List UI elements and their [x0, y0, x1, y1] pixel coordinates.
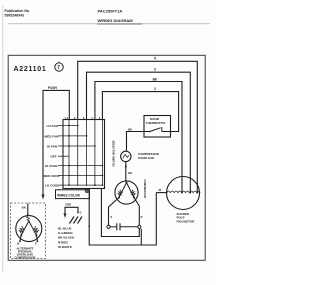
svg-text:BK-BLACK: BK-BLACK — [58, 236, 75, 240]
wire BK overload to compressor — [125, 162, 133, 182]
alternate compressor label — [15, 246, 37, 259]
svg-text:L1: L1 — [65, 116, 69, 120]
wire 3 (switch to fan motor med) — [87, 68, 191, 193]
svg-text:COMPRESSOR: COMPRESSOR — [15, 255, 37, 259]
svg-text:Publication No.: Publication No. — [5, 9, 31, 13]
compressor overload label — [138, 152, 160, 160]
row HI FAN — [47, 145, 96, 149]
push wire with arrow — [42, 86, 70, 199]
wire W1 common run line — [88, 189, 156, 245]
svg-text:BK: BK — [153, 77, 158, 81]
row LO COOL — [45, 184, 103, 188]
svg-text:G: G — [80, 211, 82, 214]
svg-text:3: 3 — [154, 68, 156, 72]
svg-text:2: 2 — [154, 87, 156, 91]
svg-text:THERMOSTAT: THERMOSTAT — [146, 121, 166, 125]
svg-text:OVERLOAD: OVERLOAD — [138, 156, 154, 160]
svg-text:LO COOL: LO COOL — [45, 184, 59, 188]
svg-text:W: W — [17, 243, 20, 246]
row MED COOL — [43, 174, 103, 178]
diagram border — [8, 55, 205, 260]
svg-text:SELECTOR SWITCH: SELECTOR SWITCH — [112, 141, 116, 167]
svg-text:CRD: CRD — [65, 203, 71, 207]
svg-text:WIRING DIAGRAM: WIRING DIAGRAM — [98, 18, 134, 23]
svg-text:LO FAN: LO FAN — [47, 124, 59, 128]
svg-text:MED COOL: MED COOL — [43, 174, 60, 178]
svg-text:A221101: A221101 — [14, 66, 47, 73]
alternate compressor dashed box — [11, 203, 46, 259]
svg-text:W-WHITE: W-WHITE — [58, 245, 72, 249]
selector switch box — [63, 120, 105, 189]
circled terminal marker — [85, 189, 89, 193]
shaded pole fan motor — [166, 177, 201, 210]
svg-text:MED FAN: MED FAN — [45, 134, 60, 138]
alternate compressor — [16, 214, 42, 245]
compressor — [115, 181, 138, 204]
faint page scan edge left — [2, 6, 4, 272]
svg-text:HI FAN: HI FAN — [47, 145, 58, 149]
wire 5 (switch to fan motor lo) — [78, 57, 198, 193]
header rule — [8, 23, 210, 25]
wire compressor S to capacitor — [109, 198, 120, 226]
svg-text:HI COOL: HI COOL — [45, 164, 58, 168]
svg-text:BL-BLUE: BL-BLUE — [58, 227, 72, 231]
alternate compressor BK lead — [22, 204, 28, 215]
svg-text:BK: BK — [128, 128, 132, 132]
svg-text:W: W — [159, 188, 162, 192]
wires color label box — [56, 190, 90, 199]
run capacitor — [107, 223, 141, 230]
row MED FAN — [45, 134, 88, 138]
svg-text:R-RED: R-RED — [58, 240, 69, 244]
header publication number — [5, 9, 31, 17]
row OFF — [51, 155, 70, 159]
wire run line to fan motor — [156, 188, 166, 193]
selector switch column buses — [69, 120, 102, 187]
svg-text:S: S — [111, 216, 113, 219]
svg-text:BK: BK — [22, 206, 26, 210]
svg-text:COMPRESSOR: COMPRESSOR — [143, 179, 147, 198]
svg-text:5: 5 — [154, 57, 156, 61]
wire compressor R to capacitor — [134, 198, 143, 226]
svg-text:7: 7 — [57, 65, 60, 71]
wire color legend — [58, 227, 75, 249]
svg-text:PUSH: PUSH — [48, 86, 58, 90]
svg-text:BK: BK — [128, 171, 132, 175]
row HI COOL — [45, 164, 103, 168]
svg-text:FAN MOTOR: FAN MOTOR — [177, 219, 196, 223]
selector switch terminal labels — [65, 116, 101, 120]
svg-text:WIRES COLOR: WIRES COLOR — [57, 193, 81, 197]
room thermostat box — [144, 116, 171, 138]
chassis ground — [70, 217, 83, 224]
power cord CRD — [64, 203, 82, 218]
svg-text:OFF: OFF — [51, 155, 57, 159]
circled revision symbol — [55, 62, 63, 72]
compressor overload — [121, 151, 131, 161]
svg-text:PAC250FT1A: PAC250FT1A — [98, 8, 123, 13]
svg-text:5995246943: 5995246943 — [5, 14, 25, 18]
wire W2 to capacitor — [101, 189, 139, 237]
wire BK (switch to fan motor hi) — [95, 77, 182, 192]
junction capacitor to run line — [140, 229, 142, 245]
fan motor label — [177, 212, 196, 223]
svg-text:G-GREEN: G-GREEN — [58, 231, 73, 235]
row LO FAN — [47, 124, 79, 128]
wire 2 (switch to thermostat) — [102, 87, 178, 131]
thermostat switch contacts — [144, 127, 171, 132]
wire BK thermostat to overload — [127, 128, 145, 152]
svg-text:R: R — [141, 216, 143, 219]
svg-text:R: R — [35, 242, 37, 245]
